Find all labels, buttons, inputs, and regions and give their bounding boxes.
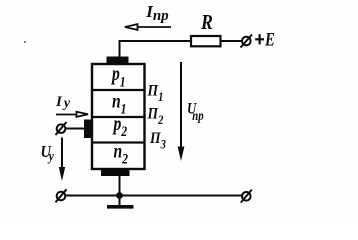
svg-text:Iу: Iу (55, 94, 71, 111)
label +E (255, 34, 264, 44)
junction line П3 (92, 141, 144, 143)
gate current arrow Iу (56, 112, 88, 117)
wire: anode lead vertical (119, 41, 121, 58)
wire: gate lead horizontal (65, 128, 85, 130)
voltage arrow Uу (59, 138, 65, 182)
stray speck (24, 41, 26, 43)
cathode contact tab (101, 169, 130, 176)
svg-text:П3: П3 (149, 130, 166, 151)
wire: top horizontal to resistor (119, 40, 191, 42)
bottom-left terminal (56, 189, 67, 202)
ground (107, 196, 134, 207)
svg-text:Uпр: Uпр (187, 100, 204, 123)
gate terminal (56, 122, 67, 135)
svg-text:П1: П1 (147, 83, 164, 104)
bottom-right terminal (241, 190, 252, 203)
junction line П2 (92, 116, 144, 118)
gate contact tab (84, 120, 93, 139)
wire: cathode lead vertical (119, 174, 121, 196)
svg-text:E: E (264, 29, 275, 50)
svg-text:Iпр: Iпр (145, 2, 169, 24)
wire: bottom horizontal rail (65, 195, 242, 197)
resistor R (191, 36, 221, 46)
svg-text:R: R (200, 12, 213, 35)
wire: resistor to +E terminal (221, 40, 242, 42)
anode contact tab (107, 57, 129, 64)
voltage arrow Uпр (178, 62, 185, 161)
junction line П1 (92, 89, 144, 91)
thyristor structure body (92, 64, 145, 169)
svg-text:П2: П2 (147, 106, 164, 127)
terminal +E (241, 35, 253, 48)
current arrow Iпр (125, 24, 171, 30)
svg-text:Uу: Uу (41, 143, 55, 164)
junction node dot (116, 192, 123, 199)
